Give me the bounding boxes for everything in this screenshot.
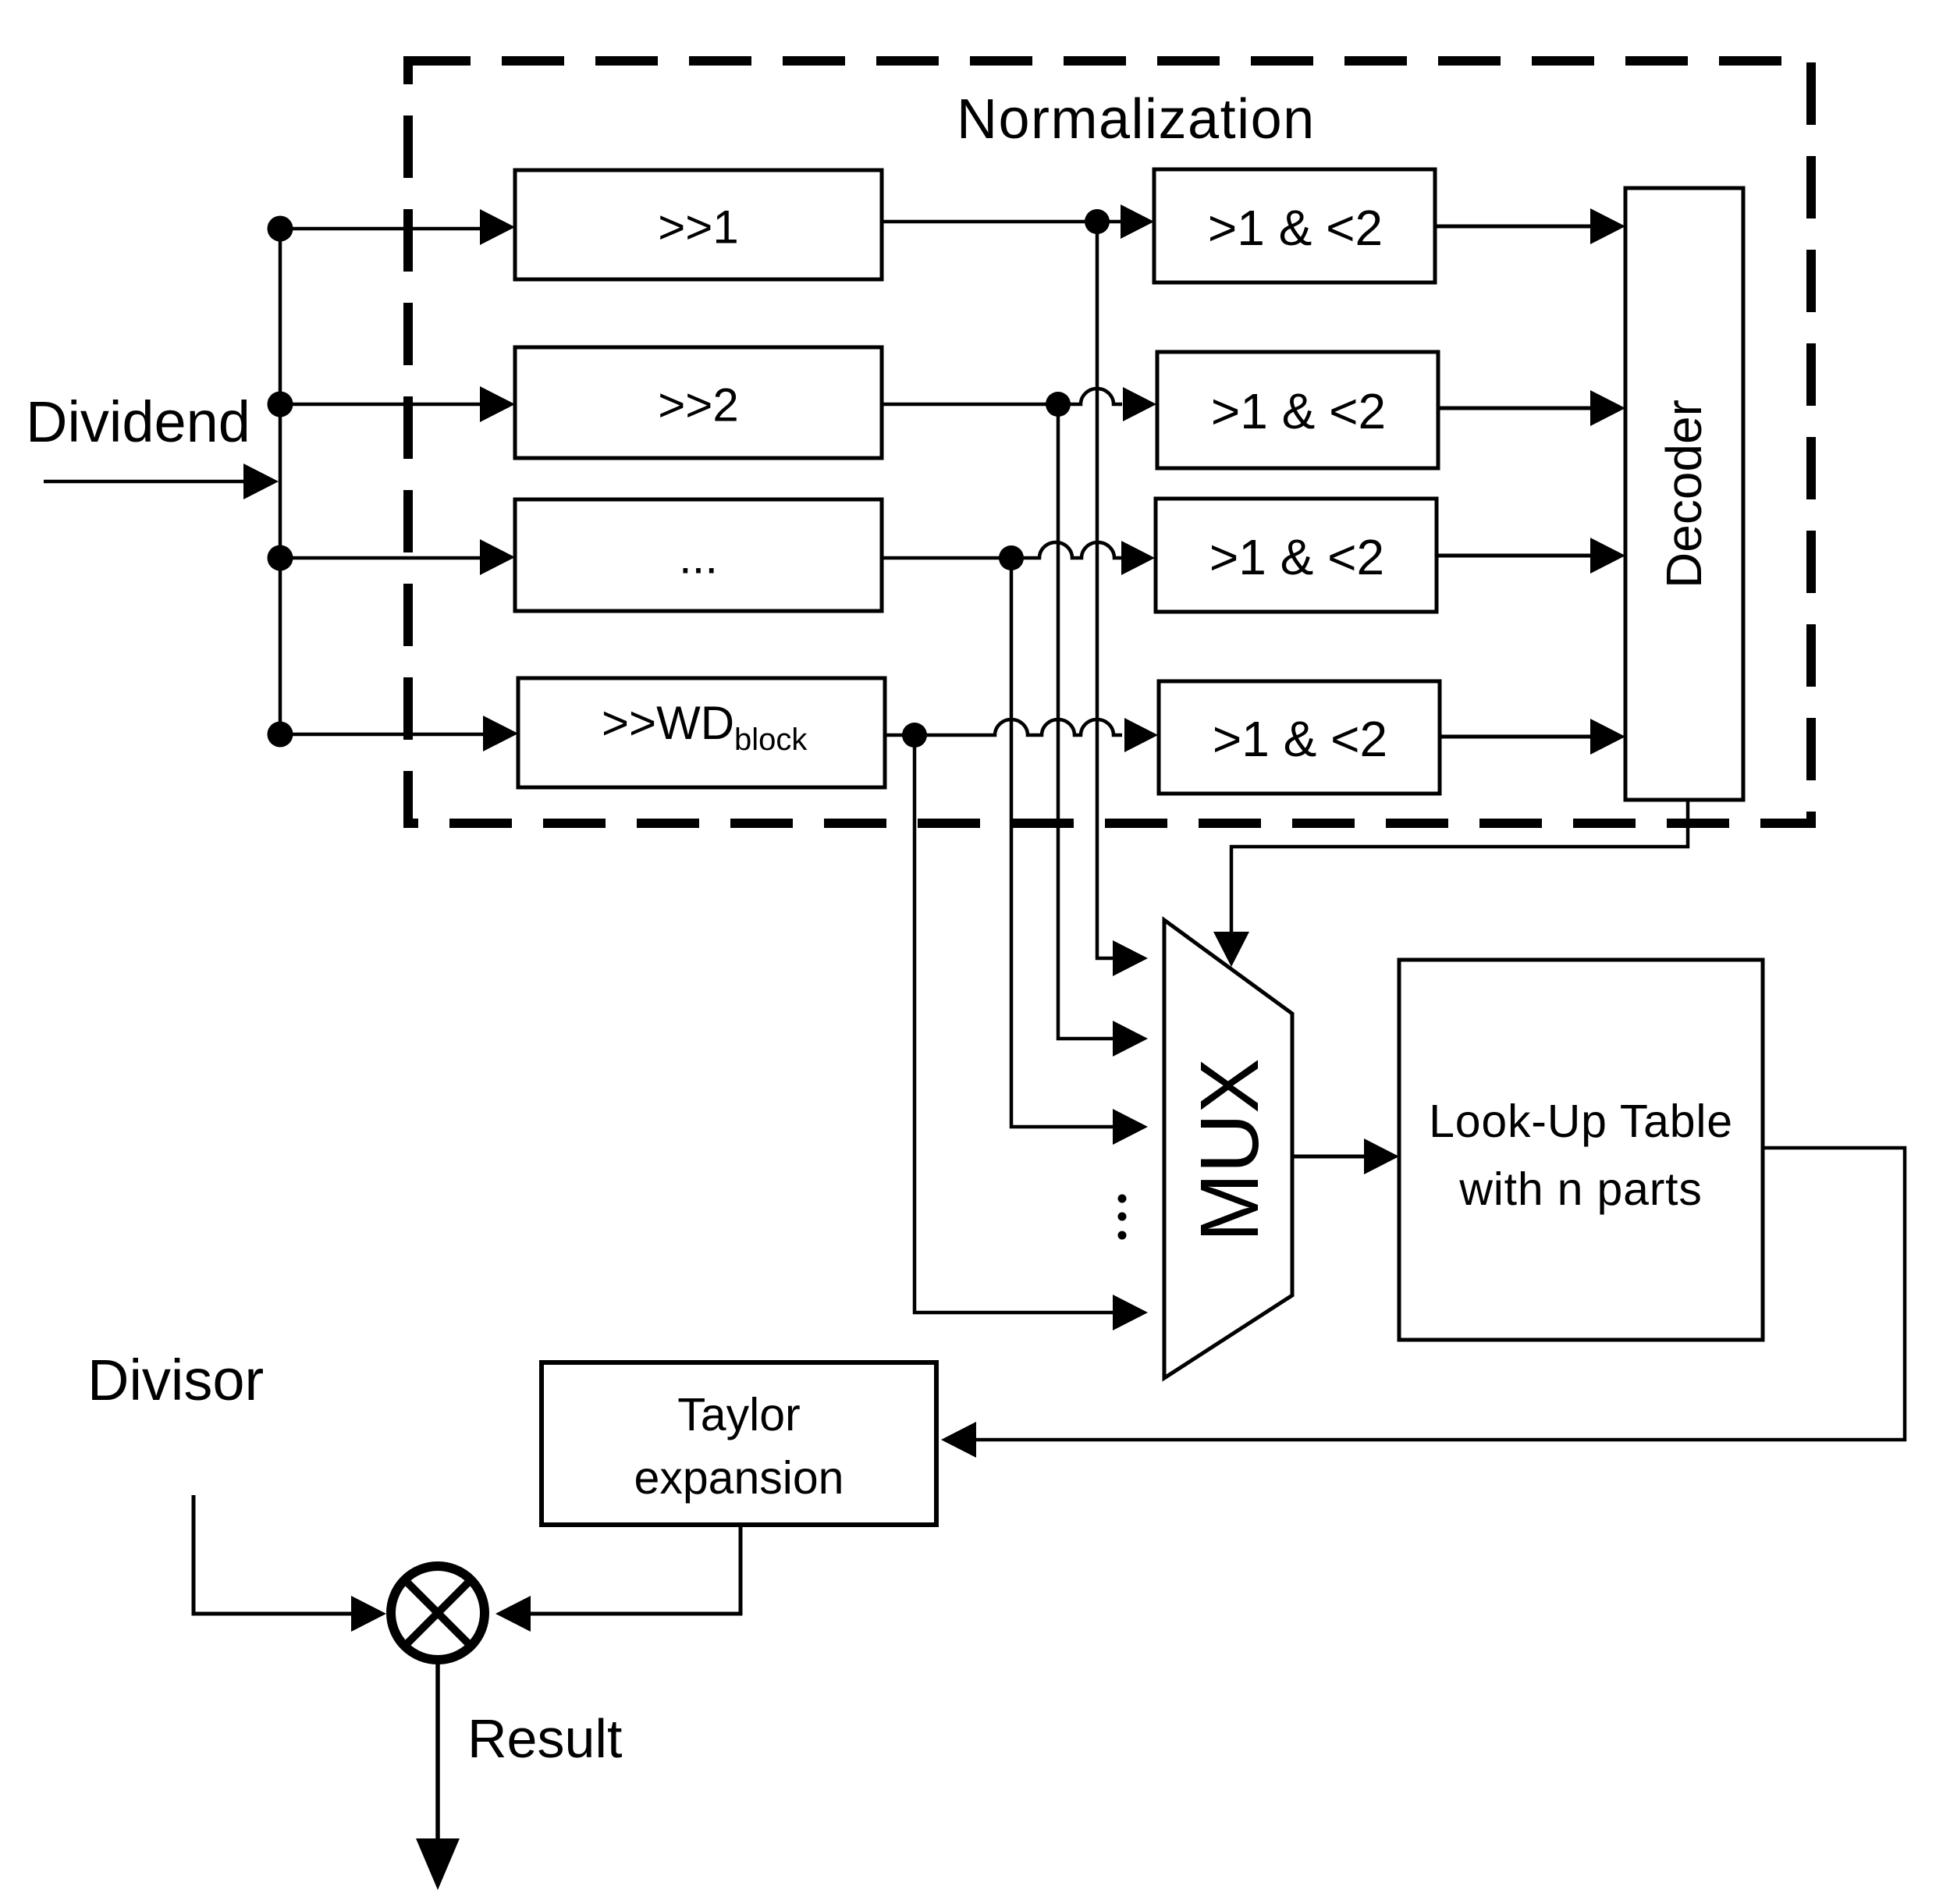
- wire row2 drop to mux: [1058, 404, 1148, 1057]
- mux ellipsis dots: [1118, 1195, 1127, 1240]
- wire lut to taylor feedback: [941, 1148, 1905, 1458]
- node bus row1: [268, 216, 293, 242]
- box comparator4: [1159, 681, 1440, 794]
- wire row4 drop to mux: [915, 735, 1148, 1330]
- svg-text:Look-Up Table: Look-Up Table: [1429, 1096, 1733, 1147]
- box comparator3: [1156, 499, 1437, 612]
- svg-text:Dividend: Dividend: [26, 389, 250, 454]
- node bus row4: [268, 722, 293, 748]
- node row1 junction: [1085, 209, 1110, 234]
- svg-text:>>2: >>2: [658, 379, 738, 432]
- wire bus to box >>1: [280, 209, 515, 245]
- svg-text:>1 & <2: >1 & <2: [1208, 200, 1383, 256]
- svg-text:Result: Result: [467, 1708, 622, 1769]
- box comparator2: [1157, 352, 1438, 468]
- box shifter WDblock: [518, 678, 885, 787]
- svg-text:>>1: >>1: [658, 201, 738, 254]
- box decoder: [1625, 188, 1743, 800]
- box shifter >>1: [515, 170, 882, 279]
- wire result output: [416, 1662, 460, 1890]
- wire dividend input: [44, 464, 279, 499]
- mux trapezoid: [1164, 920, 1292, 1378]
- node row4 junction: [902, 723, 927, 748]
- wire bus to box WDblock: [280, 716, 518, 751]
- svg-text:Taylor: Taylor: [677, 1389, 800, 1440]
- box taylor expansion: [542, 1362, 936, 1525]
- wire taylor to multiplier: [495, 1525, 741, 1632]
- wire comparator2 to decoder: [1438, 390, 1625, 426]
- wire decoder to mux select: [1213, 800, 1688, 967]
- wire row2 output: [882, 387, 1156, 421]
- normalization dashed box: [408, 61, 1811, 823]
- svg-text:with n parts: with n parts: [1458, 1163, 1702, 1215]
- multiplier circle: [391, 1566, 485, 1660]
- wire row1 output: [882, 204, 1154, 239]
- wire row4 output: [885, 718, 1158, 752]
- node bus row2: [268, 392, 293, 417]
- box lookup table: [1399, 960, 1763, 1340]
- svg-text:expansion: expansion: [634, 1452, 844, 1504]
- wire comparator3 to decoder: [1437, 538, 1625, 574]
- wire bus to box >>2: [280, 386, 515, 422]
- node bus row3: [268, 545, 293, 571]
- box shifter dots: [515, 499, 882, 611]
- box comparator1: [1154, 169, 1435, 282]
- wire dividend bus: [279, 229, 282, 734]
- wire row3 drop to mux: [1011, 558, 1148, 1145]
- svg-text:Decoder: Decoder: [1656, 400, 1712, 588]
- svg-text:>1 & <2: >1 & <2: [1213, 711, 1387, 767]
- wire comparator4 to decoder: [1440, 719, 1625, 755]
- svg-text:>1 & <2: >1 & <2: [1209, 529, 1384, 585]
- svg-text:Divisor: Divisor: [87, 1348, 264, 1412]
- svg-text:Normalization: Normalization: [957, 88, 1316, 151]
- wire row1 drop to mux: [1097, 222, 1148, 976]
- wire row3 output: [882, 541, 1155, 575]
- node row3 junction: [999, 545, 1024, 570]
- wire bus to box dots: [280, 539, 515, 575]
- wire comparator1 to decoder: [1435, 208, 1625, 244]
- svg-text:MUX: MUX: [1184, 1058, 1276, 1242]
- svg-text:>1 & <2: >1 & <2: [1211, 383, 1386, 439]
- box shifter >>2: [515, 347, 882, 458]
- wire mux to lut: [1292, 1138, 1399, 1174]
- wire divisor to multiplier: [194, 1495, 386, 1632]
- svg-text:...: ...: [679, 531, 718, 584]
- node row2 junction: [1046, 392, 1071, 417]
